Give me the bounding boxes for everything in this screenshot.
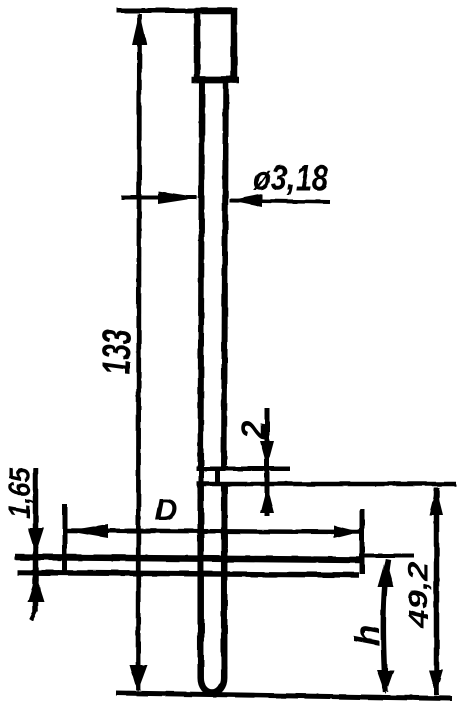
top extension line (117, 8, 237, 13)
dimension 49,2 top arrow (429, 487, 443, 515)
svg-text:1,65: 1,65 (4, 466, 37, 518)
svg-text:133: 133 (95, 329, 139, 375)
dimension phi 3,18 left line (121, 196, 197, 200)
svg-text:h: h (348, 625, 387, 646)
svg-text:2: 2 (235, 420, 272, 440)
svg-text:ø3,18: ø3,18 (253, 159, 328, 198)
top cap block (197, 11, 234, 80)
dimension D left arrow (67, 524, 109, 538)
dimension 1,65 top arrow (28, 528, 45, 555)
dimension phi 3,18 right line (230, 201, 331, 203)
groove neck right edge (215, 468, 220, 485)
dimension D left extension line (62, 504, 67, 575)
dimension 1,65 line (33, 468, 39, 612)
rod lower part with rounded bottom (201, 484, 225, 693)
dimension 49,2 bottom arrow (429, 670, 444, 696)
groove neck left edge (199, 468, 204, 485)
dimension 2 bottom arrow (260, 486, 274, 513)
dimension D right extension line (360, 509, 365, 574)
svg-text:D: D (155, 492, 177, 527)
groove top edge (197, 466, 291, 471)
bottom extension line (116, 693, 452, 699)
dimension h top extension line (363, 554, 414, 558)
dimension D right arrow (334, 526, 360, 539)
dimension phi 3,18 right arrow (230, 194, 263, 207)
cross-bar bottom edge (17, 573, 359, 576)
dimension phi 3,18 left arrow (158, 191, 200, 204)
dimension 2 line (265, 408, 270, 516)
rod upper right edge (224, 80, 226, 470)
groove bottom edge / extension line for 49,2 (197, 482, 456, 487)
dimension 1,65 bottom hook (31, 610, 36, 620)
dimension 2 top arrow (260, 441, 274, 467)
dimension 133 top arrow (132, 12, 147, 45)
rod upper left edge (201, 80, 203, 470)
dimension 133 bottom arrow (130, 665, 148, 692)
dimension D line (66, 531, 360, 533)
dimension 49,2 line (434, 488, 440, 696)
top cap block bottom edge (192, 77, 240, 84)
dimension h top arrow (378, 559, 394, 587)
dimension 1,65 bottom arrow (28, 575, 45, 602)
svg-text:49,2: 49,2 (403, 561, 434, 629)
cross-bar top edge (15, 557, 362, 560)
dimension 133 line (138, 14, 140, 690)
dimension h line (383, 559, 388, 692)
dimension h bottom arrow (377, 670, 394, 694)
